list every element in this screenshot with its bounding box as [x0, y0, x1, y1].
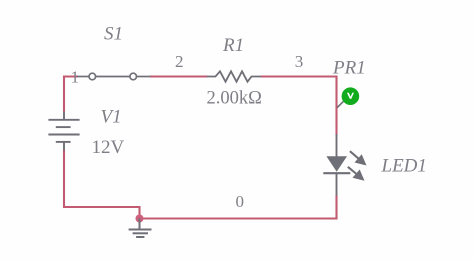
switch S1 — [77, 73, 151, 80]
battery V1 — [48, 112, 79, 151]
svg-text:V1: V1 — [101, 107, 122, 128]
junction node dot — [136, 215, 144, 223]
svg-text:12V: 12V — [92, 137, 125, 158]
wire: LED bottom to bottom-right corner to junction — [140, 195, 337, 219]
wire top-left: node 1 corner to battery top — [64, 77, 78, 113]
probe PR1 — [337, 87, 359, 107]
wire: resistor to top-right corner, down to probe/LED (node 3) — [261, 77, 337, 135]
svg-text:R1: R1 — [222, 35, 244, 56]
svg-text:2.00kΩ: 2.00kΩ — [207, 89, 262, 109]
svg-text:0: 0 — [236, 192, 245, 211]
svg-text:3: 3 — [295, 52, 304, 71]
LED1 — [323, 134, 366, 196]
svg-text:S1: S1 — [104, 23, 123, 44]
svg-text:2: 2 — [175, 52, 184, 71]
wire: switch to resistor (node 2) — [150, 75, 208, 77]
ground — [129, 219, 152, 238]
resistor R1 — [207, 71, 261, 81]
wire: battery bottom, bottom-left run to junction — [64, 150, 140, 219]
svg-text:PR1: PR1 — [332, 58, 366, 79]
svg-text:LED1: LED1 — [381, 155, 427, 176]
svg-text:1: 1 — [71, 68, 80, 87]
